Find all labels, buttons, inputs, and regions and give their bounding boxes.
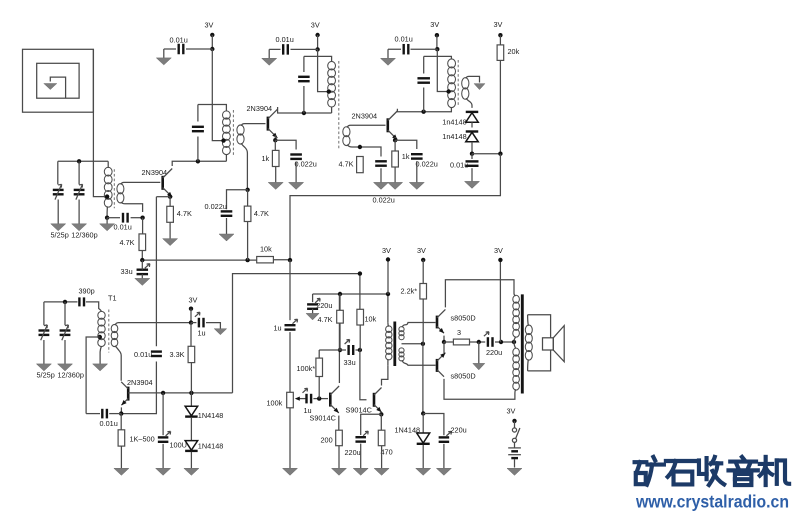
capacitor 0.022u Q3 bypass	[411, 154, 423, 158]
node AF line junction	[358, 271, 362, 275]
potentiometer wiper arrow	[295, 397, 306, 401]
ground 1u bypass	[214, 327, 227, 335]
capacitor tank2	[192, 127, 204, 131]
loop antenna spiral	[23, 49, 94, 112]
svg-text:3.3K: 3.3K	[170, 350, 185, 359]
svg-text:100k: 100k	[267, 398, 283, 407]
node tank1 cap2 junction	[77, 159, 81, 163]
svg-text:2.2k*: 2.2k*	[401, 286, 418, 295]
inductor T3 secondary	[462, 78, 469, 100]
wire speaker top	[528, 315, 551, 338]
variable capacitor 5/25p (tank1)	[53, 184, 64, 199]
wire bypass cap 1 left	[164, 49, 176, 52]
wire Q1 emitter down	[169, 195, 171, 197]
ground 100U	[156, 444, 171, 475]
svg-text:5/25p: 5/25p	[37, 371, 55, 380]
svg-text:220u: 220u	[345, 448, 361, 457]
svg-text:1k: 1k	[262, 154, 270, 163]
node 3V T1 terminal	[189, 307, 193, 311]
battery 3V	[508, 448, 521, 458]
diode 1N4148 bias D5	[417, 433, 430, 444]
wire tank3 left bottom	[423, 88, 425, 112]
svg-text:1n4148: 1n4148	[442, 118, 466, 127]
svg-text:4.7K: 4.7K	[339, 159, 354, 168]
inductor T1 secondary	[111, 324, 118, 346]
svg-text:s8050D: s8050D	[451, 313, 476, 322]
wire bypass cap 2 left	[269, 49, 280, 52]
resistor 10k AF	[357, 309, 364, 325]
capacitor 220u Q6 bypass	[355, 431, 368, 441]
svg-text:0.022u: 0.022u	[205, 202, 227, 211]
capacitor 220u output	[484, 332, 493, 347]
wire D2 to detector node	[471, 142, 473, 154]
node antenna tap on primary	[105, 194, 109, 198]
inductor T-in secondary	[117, 184, 124, 203]
wire AF collector rail	[313, 293, 388, 295]
node tank2 tap (3V feed)	[221, 138, 225, 142]
wire bypass cap 3 left	[388, 49, 401, 52]
wire base-return to cap	[227, 190, 248, 209]
wire Q6 emitter res	[380, 414, 382, 430]
inductor T2b secondary	[343, 127, 350, 146]
switch SPST	[512, 428, 520, 443]
wire switch to battery	[514, 442, 516, 447]
core tank3 (dashed)	[457, 60, 459, 106]
wire 4.7K to AGC rail	[141, 251, 143, 261]
node 3V terminal 1	[210, 33, 214, 37]
diode 1n4148 detector D1	[466, 112, 479, 122]
wire Q4 emitter res stem	[120, 414, 122, 430]
svg-text:33u: 33u	[344, 358, 356, 367]
transistor Q8 s8050D lower	[437, 353, 445, 377]
node output transformer center tap	[512, 340, 516, 344]
wire Q5 collector riser	[338, 294, 340, 383]
capacitor 33u interstage	[345, 340, 354, 356]
wire tank2 left branch bottom	[197, 137, 199, 162]
node 3V terminal 7	[498, 258, 502, 262]
node AGC rail left end	[140, 258, 144, 262]
wire between detector diodes	[471, 122, 473, 127]
resistor 4.7K AGC (stage3)	[357, 157, 364, 173]
ground 470	[374, 446, 389, 476]
svg-text:3V: 3V	[382, 246, 391, 255]
svg-text:200: 200	[321, 436, 333, 445]
resistor 1k Q2 emitter	[272, 150, 279, 166]
svg-text:1u: 1u	[274, 324, 282, 333]
node Q6 emitter	[379, 412, 383, 416]
ground detector filter	[465, 168, 480, 188]
node detector output	[470, 152, 474, 156]
wire bypass cap 3 right	[411, 48, 438, 50]
svg-text:10k: 10k	[260, 245, 272, 254]
wire battery to gnd	[514, 459, 516, 467]
inductor T-in primary	[104, 161, 112, 207]
transistor Q2 2N3904	[268, 109, 278, 138]
ground 220u Q6	[353, 444, 368, 476]
wire osc cap left	[86, 413, 100, 415]
wire 3V1 feed down to T2 tap	[212, 49, 222, 141]
capacitor 220u decoupling	[307, 298, 320, 308]
node primary-gnd junction	[105, 216, 109, 220]
wire 3.3K to base line	[190, 363, 192, 393]
node 3V terminal 6	[421, 258, 425, 262]
capacitor 1u AF coupling	[303, 388, 312, 403]
ground stage2 base-return	[219, 218, 234, 241]
watermark glyph kuang	[635, 457, 664, 485]
wire tank2b left top	[303, 56, 305, 72]
watermark glyph shi	[666, 461, 695, 484]
node 4.7K AF top	[338, 292, 342, 296]
svg-text:5/25p: 5/25p	[51, 230, 69, 239]
wire Q6 emitter bypass	[361, 414, 382, 435]
wire Q5 emitter down	[338, 416, 340, 431]
capacitor 0.01u bypass 3	[404, 44, 409, 55]
svg-text:0.01u: 0.01u	[114, 223, 132, 232]
svg-text:3V: 3V	[311, 20, 320, 29]
svg-text:3V: 3V	[494, 246, 503, 255]
wire 100k* top	[318, 350, 320, 358]
wire 10k AF bottom	[359, 325, 361, 350]
resistor 4.7K Q1 emitter	[167, 206, 174, 222]
resistor 4.7K AF collector	[337, 310, 344, 323]
svg-text:0.01u: 0.01u	[100, 419, 118, 428]
wire emitters to 3ohm	[444, 341, 453, 343]
wire tank3 left top	[423, 56, 425, 73]
svg-text:3V: 3V	[417, 246, 426, 255]
wire 3V1 down	[211, 35, 213, 49]
transistor Q3 2N3904	[388, 111, 398, 140]
wire AGC rail right	[273, 259, 290, 261]
wire Q2 emitter down	[274, 135, 276, 140]
node Q1 emitter	[168, 195, 172, 199]
inductor T1 primary	[98, 311, 105, 346]
svg-text:4.7K: 4.7K	[318, 315, 333, 324]
svg-text:3V: 3V	[430, 20, 439, 29]
node bias diode junction	[421, 411, 425, 415]
wire center tap to diode node	[422, 344, 424, 414]
variable capacitor 5/25p (osc)	[39, 325, 50, 340]
wire 3V2 down	[317, 35, 319, 49]
wire 33u stem	[141, 260, 143, 270]
wire Q7 emitter down	[443, 336, 445, 342]
wire Q2 collector to tank2b	[278, 107, 332, 113]
wire 4.7K AF bottom	[339, 294, 341, 350]
wire bypass cap 2 right	[291, 48, 318, 50]
svg-text:390p: 390p	[79, 287, 95, 296]
inductor T5 primary upper	[513, 294, 520, 349]
resistor 200 Q5 emitter	[336, 430, 343, 446]
svg-text:www.crystalradio.cn: www.crystalradio.cn	[635, 492, 789, 512]
wire volume feed upper	[289, 260, 291, 320]
resistor 3.3K	[188, 346, 195, 362]
inductor T5 secondary	[525, 315, 532, 371]
wire osc cap right	[109, 413, 121, 415]
capacitor 220u bias bypass	[439, 431, 452, 441]
wire 100U stem	[162, 393, 164, 435]
capacitor tank3	[417, 78, 430, 82]
wire Q2 emitter to bypass cap	[275, 140, 296, 149]
svg-text:10k: 10k	[365, 314, 377, 323]
wire T3 sec bottom to diode	[466, 98, 472, 108]
core T1 (dashed)	[108, 310, 110, 353]
ground stage3 base-return cap	[374, 168, 389, 189]
ground bypass 3	[381, 52, 396, 65]
node Q4 emitter	[119, 411, 123, 415]
svg-text:220u: 220u	[316, 301, 332, 310]
wire T4 sec lower bottom to Q8 base	[402, 360, 436, 365]
wire 3V3 down	[436, 35, 438, 49]
wire 100k* bottom	[318, 377, 320, 399]
resistor 20k	[497, 45, 504, 61]
wire 3V4 to 20k	[499, 35, 501, 45]
capacitor 100U	[158, 431, 171, 441]
wire volume feed lower	[289, 332, 291, 392]
node Q5 base	[317, 396, 321, 400]
node bias center tap	[421, 342, 425, 346]
svg-text:2N3904: 2N3904	[127, 378, 153, 387]
resistor 470	[378, 430, 385, 446]
wire T4 sec center tap	[402, 343, 423, 345]
ground arrow T3 secondary top	[474, 84, 485, 90]
ground bypass 2	[262, 52, 277, 65]
node Q5 collector node	[338, 348, 342, 352]
node 3V5 rail junction	[386, 292, 390, 296]
wire reflex vertical lower	[121, 362, 156, 414]
wire Q6 base feed	[360, 350, 367, 400]
svg-text:0.01u: 0.01u	[450, 160, 468, 169]
wire coupling cap left	[107, 217, 120, 219]
node emitters common	[442, 340, 446, 344]
node tank2 bottom junction	[196, 159, 200, 163]
svg-text:0.01u: 0.01u	[134, 350, 152, 359]
svg-text:0.01u: 0.01u	[170, 35, 188, 44]
node bypass junction 2	[315, 47, 319, 51]
ground Q3 1k	[388, 167, 403, 189]
wire AF takeoff line	[290, 154, 500, 260]
wire T2b sec top to Q3 base	[347, 125, 386, 127]
svg-text:s8050D: s8050D	[451, 371, 476, 380]
wire Q4 base line	[128, 392, 232, 394]
ground Q2 bypass	[289, 162, 304, 190]
ground Q5 emitter	[332, 446, 347, 476]
node 20k junction	[498, 152, 502, 156]
wire tank1 top rail	[58, 160, 108, 162]
svg-text:100U: 100U	[170, 440, 187, 449]
wire T2 sec bottom down	[241, 143, 247, 190]
ground T1 primary	[93, 358, 108, 371]
svg-text:0.01u: 0.01u	[276, 35, 294, 44]
resistor 1K-500	[118, 430, 125, 446]
svg-text:1K–500: 1K–500	[130, 434, 155, 443]
wire tank2b left bottom	[303, 86, 305, 113]
capacitor 0.022u stage2 base-return	[221, 211, 233, 215]
core T5 (solid)	[521, 294, 524, 393]
node osc varcap2 junction	[63, 300, 67, 304]
wire tank3 top rail	[424, 56, 452, 59]
node stage2 base-return	[245, 188, 249, 192]
wire coupling cap right	[131, 217, 143, 219]
wire 220u decoupling stem	[312, 294, 314, 302]
wire varcap1 stem	[57, 161, 59, 184]
diode 1N4148 bias D3	[185, 406, 198, 416]
svg-text:220u: 220u	[451, 425, 467, 434]
wire AGC node to 4.7K	[142, 218, 144, 234]
capacitor stage3 base-return	[375, 161, 387, 165]
wire 1u bypass right	[206, 323, 220, 327]
core T-in (dashed)	[113, 169, 115, 208]
ground Q2 1k	[268, 167, 283, 190]
svg-text:4.7K: 4.7K	[120, 238, 135, 247]
wire tank2 left branch top	[197, 105, 199, 122]
wire detector filter cap stem	[471, 154, 473, 159]
ground bypass 1	[156, 52, 171, 65]
node base line 100U junction	[161, 391, 165, 395]
wire 10k AF top	[359, 274, 361, 310]
wire pot to ground	[289, 408, 291, 461]
svg-text:1N4148: 1N4148	[395, 426, 421, 435]
wire between bias diodes	[190, 417, 192, 440]
inductor T4 secondary lower	[399, 348, 404, 361]
wire T1 tap feedback	[86, 337, 100, 414]
capacitor 0.01u detector filter	[466, 161, 479, 165]
node Q2 emitter	[273, 138, 277, 142]
svg-text:1u: 1u	[198, 329, 206, 338]
svg-text:T1: T1	[108, 294, 117, 303]
capacitor 0.01u bypass 1	[179, 44, 184, 55]
wire 3.3K stem top	[190, 323, 192, 347]
svg-text:4.7K: 4.7K	[177, 209, 192, 218]
wire 3ohm to gnd node	[470, 341, 486, 343]
ground osc varcap2	[58, 340, 73, 371]
svg-text:1k: 1k	[402, 152, 410, 161]
capacitor 0.022u Q2 bypass	[290, 155, 302, 159]
core tank2 (dashed)	[232, 110, 234, 155]
diode 1n4148 detector D2	[466, 132, 479, 142]
capacitor 0.01u reflex	[151, 352, 162, 356]
inductor tank3 coil	[448, 59, 456, 108]
wire osc varcap1 stem	[43, 302, 45, 325]
wire Q1 collector to rail	[172, 161, 226, 166]
wire secondary top to Q1 base	[121, 182, 160, 184]
wire Q2 emitter res	[274, 140, 276, 150]
svg-text:0.022u: 0.022u	[416, 160, 438, 169]
node 3V terminal 2	[315, 33, 319, 37]
wire Q6 emitter down	[380, 413, 382, 415]
svg-text:12/360p: 12/360p	[71, 230, 97, 239]
wire reflex vertical upper	[155, 197, 157, 347]
wire 1u bypass left	[191, 322, 196, 324]
capacitor 0.01u stage1 coupling	[123, 213, 128, 223]
svg-text:2N3904: 2N3904	[142, 168, 168, 177]
inductor tank2 coil	[223, 111, 231, 161]
capacitor 1u volume series	[285, 319, 298, 329]
svg-text:3V: 3V	[494, 20, 503, 29]
ground battery	[507, 468, 522, 475]
capacitor 33u AGC filter	[137, 264, 150, 274]
wire bypass cap 1 right	[186, 48, 212, 50]
svg-text:0.022u: 0.022u	[373, 195, 395, 204]
wire Q1 emitter to reflex line	[156, 196, 170, 198]
svg-text:3V: 3V	[189, 296, 198, 305]
wire 3V5 terminal	[387, 260, 389, 295]
wire T4 sec upper top to Q7 base	[402, 323, 436, 328]
wire stage2 base-return stem	[247, 190, 249, 206]
node tank2b bottom junction	[302, 111, 306, 115]
ground varcap1	[51, 200, 66, 231]
wire 220u output right	[495, 341, 514, 343]
inductor T5 primary lower	[513, 348, 520, 393]
node T1 supply junction	[189, 320, 193, 324]
svg-text:20k: 20k	[508, 47, 520, 56]
wire speaker bottom	[528, 350, 551, 371]
svg-text:1N4148: 1N4148	[198, 411, 224, 420]
svg-text:S9014C: S9014C	[310, 414, 336, 423]
capacitor 1u T1 bypass	[195, 312, 204, 327]
wire 20k down to detector node	[499, 60, 501, 153]
inductor T2 secondary	[237, 125, 244, 144]
core T4 (solid)	[393, 322, 396, 367]
capacitor 0.01u bypass 2	[283, 44, 288, 55]
inductor tank2b coil	[328, 61, 336, 113]
wire Q3 emitter to bypass cap	[395, 140, 417, 149]
capacitor tank2b	[298, 77, 310, 81]
ground bias diodes	[184, 452, 199, 476]
capacitor 0.01u osc emitter	[102, 409, 107, 419]
wire Q1 emitter res top	[169, 197, 171, 207]
wire tank2 top rail	[198, 105, 227, 112]
wire AGC rail left	[142, 259, 256, 261]
watermark glyph ji	[760, 457, 789, 485]
svg-text:3: 3	[457, 328, 461, 337]
variable capacitor 12/360p (tank1)	[74, 184, 85, 199]
ground 33u	[135, 274, 150, 285]
node output gnd/cap	[477, 340, 481, 344]
svg-text:4.7K: 4.7K	[254, 209, 269, 218]
node 3V7 center tap feed	[499, 340, 503, 344]
transistor Q4 2N3904	[121, 382, 128, 405]
ground volume pot	[283, 461, 298, 475]
wire T1 primary bottom	[100, 346, 101, 358]
node stage1 AGC junction	[140, 216, 144, 220]
node 3V terminal 4	[498, 33, 502, 37]
wire osc tank top rail	[44, 301, 78, 303]
node 3V terminal 3	[435, 33, 439, 37]
node volume feed junction	[288, 258, 292, 262]
node T1 primary tap	[98, 335, 102, 339]
variable capacitor 12/360p (osc)	[60, 325, 71, 340]
svg-text:220u: 220u	[486, 348, 502, 357]
node 10k bottom junction	[358, 348, 362, 352]
watermark glyph shou	[699, 457, 724, 485]
svg-text:S9014C: S9014C	[346, 406, 372, 415]
ground output stage	[473, 342, 485, 370]
core tank2b (dashed)	[338, 61, 340, 150]
node base line diode junction	[189, 391, 193, 395]
ground Q3 bypass	[409, 161, 424, 189]
wire Q3 emitter res	[394, 140, 396, 151]
resistor 2.2k*	[420, 284, 427, 300]
svg-text:2N3904: 2N3904	[352, 111, 378, 120]
ground 220u decoupling	[306, 309, 319, 320]
transistor Q6 S9014C	[374, 388, 382, 413]
wire 3V7 down	[499, 260, 501, 342]
wire Q4 emitter down	[120, 407, 122, 413]
wire detector node to 20k line	[472, 153, 500, 155]
wire 2.2k top	[422, 260, 424, 284]
diode 1N4148 bias D4	[185, 441, 198, 451]
inductor T4 primary	[386, 323, 392, 366]
speaker	[543, 326, 565, 362]
